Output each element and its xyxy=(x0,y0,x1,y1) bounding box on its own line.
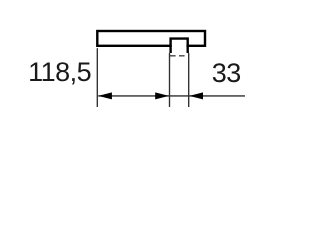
svg-text:118,5: 118,5 xyxy=(28,57,91,87)
svg-text:33: 33 xyxy=(212,58,241,88)
